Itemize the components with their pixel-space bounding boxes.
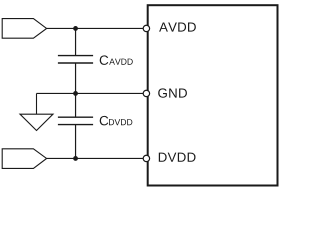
node junction GND xyxy=(73,91,78,96)
ground xyxy=(20,114,53,130)
capacitor C_AVDD xyxy=(58,56,93,63)
wire ground stem xyxy=(36,93,38,114)
IC U1 body xyxy=(148,5,278,185)
wire DVDD row xyxy=(47,157,144,159)
pin AVDD terminal circle xyxy=(143,25,149,31)
wire C_AVDD branch bottom xyxy=(75,63,77,93)
pin GND terminal circle xyxy=(143,90,149,96)
label C_DVDD xyxy=(100,116,109,126)
pin label DVDD xyxy=(159,153,196,162)
capacitor C_DVDD xyxy=(58,117,93,124)
pin label AVDD xyxy=(159,22,196,31)
node junction AVDD xyxy=(73,26,78,31)
wire C_DVDD branch top xyxy=(75,93,77,117)
label C_AVDD xyxy=(100,55,109,65)
wire AVDD row xyxy=(47,27,144,29)
node junction DVDD xyxy=(73,156,78,161)
pin DVDD terminal circle xyxy=(143,155,149,161)
wire C_AVDD branch top xyxy=(75,28,77,55)
off-page connector (AVDD supply flag) xyxy=(2,19,46,39)
off-page connector (DVDD supply flag) xyxy=(2,149,46,169)
wire GND row xyxy=(37,92,144,94)
wire C_DVDD branch bottom xyxy=(75,125,77,159)
pin label GND xyxy=(158,88,187,97)
